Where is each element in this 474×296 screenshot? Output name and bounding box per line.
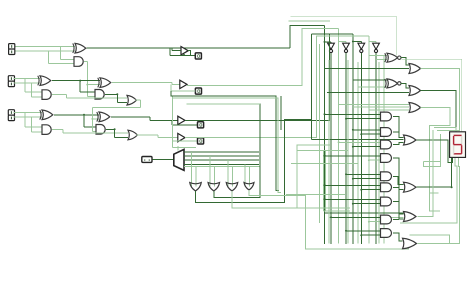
- junction S2 column: [352, 41, 354, 43]
- junction carry0: [86, 84, 88, 86]
- junction buffer1 foot: [183, 54, 185, 56]
- input pin A2/B2: [8, 110, 14, 116]
- wire AND1R input: [325, 113, 382, 115]
- wire net S1 column down: [338, 29, 340, 244]
- wire AND3b out to OR3: [106, 128, 115, 130]
- wire NOT1 output column: [330, 53, 332, 244]
- decoder DEC1 (2-to-4): [174, 149, 184, 170]
- wire light OR6 input: [329, 217, 403, 219]
- wire AND3R input: [339, 141, 381, 143]
- and AND2R: [381, 128, 392, 137]
- wire carry1 OR2 out to row3: [136, 99, 141, 101]
- junction AND8R input tap: [330, 216, 332, 218]
- input pin A1/B1: [8, 76, 14, 82]
- wire AND4R out: [393, 158, 404, 214]
- wire ORD1 riser down: [310, 34, 312, 140]
- junction XOR3a branch: [83, 114, 85, 116]
- or OR2 (carry1): [127, 95, 137, 105]
- wire S1 stub to NOT2: [339, 41, 346, 43]
- wire segB OR2 out: [421, 91, 456, 132]
- wire tap g4b: [248, 167, 250, 187]
- and AND5R: [381, 172, 392, 181]
- wire net S3 buffer4 to NOT4 column: [185, 36, 369, 138]
- wire S0 stub to NOT1: [325, 41, 332, 43]
- wire XOR1 output S0 long net: [87, 47, 291, 49]
- wire B2 to XOR3a: [14, 116, 43, 118]
- wire net S1 buffer2 to NOT2 column: [187, 29, 339, 86]
- wire tap g3b: [232, 167, 234, 187]
- wire B0 branch to AND1: [47, 51, 49, 64]
- wire segD OR4 out: [417, 140, 453, 163]
- wire OR1 input long: [325, 67, 410, 69]
- wire XNOR2 input a: [353, 79, 387, 81]
- wire AND9R out: [393, 233, 403, 241]
- wire AND8R out: [393, 219, 399, 221]
- and AND8R: [381, 215, 392, 224]
- wire segC riser 2: [430, 193, 440, 211]
- and AND9R: [381, 229, 392, 238]
- wire select long branch: [172, 98, 281, 193]
- wire AND2R input: [353, 129, 381, 131]
- wire AND1R input: [346, 118, 381, 120]
- or OR2 (segment b): [409, 86, 421, 96]
- and AND3a: [42, 125, 51, 135]
- and AND2a: [42, 90, 51, 100]
- wire buffer1 out stub: [188, 51, 190, 56]
- not NOT4: [373, 43, 380, 49]
- xor XOR2b (sum S1): [100, 78, 111, 88]
- xnor XNOR1: [387, 53, 398, 62]
- wire ORD1 staircase top: [311, 33, 353, 35]
- junction S0 column: [324, 41, 326, 43]
- wire AND3a out to OR3: [52, 129, 63, 131]
- junction carry1: [91, 118, 93, 120]
- junction AND7R input tap: [324, 198, 326, 200]
- wire A2 to XOR3a: [14, 112, 43, 114]
- wire OR2 input long: [327, 92, 409, 94]
- or OR1 (segment a): [409, 64, 421, 74]
- xor XOR1 (half adder sum S0): [75, 43, 86, 53]
- wire S0 tap to buffer input: [171, 48, 173, 51]
- wire NOT2 output column: [345, 53, 347, 244]
- wire XNOR1 input b: [376, 59, 387, 61]
- and AND4R: [381, 154, 392, 163]
- wire AND8R input: [331, 216, 381, 218]
- wire A1 branch to AND2a: [24, 79, 26, 93]
- wire AND3R out: [393, 143, 404, 145]
- wire light column mid: [328, 60, 330, 244]
- or OR6 (segment f): [404, 212, 417, 222]
- junction AND9R input tap: [345, 230, 347, 232]
- wire display left riser: [439, 134, 441, 162]
- wire S2 stub to NOT3: [353, 41, 361, 43]
- wire S2 tap to pin O3: [171, 120, 173, 125]
- wire light column pair b: [325, 150, 327, 211]
- wire ORD4 output bus: [249, 190, 408, 249]
- wire decoder out D1: [184, 155, 259, 157]
- wire segF lower: [400, 158, 457, 223]
- junction AND2R input tap: [360, 133, 362, 135]
- buffer BUF1 (S0): [181, 47, 188, 55]
- wire ORD1 output bus: [196, 120, 312, 203]
- wire riser 281 upper: [280, 96, 282, 130]
- wire S1 long branch: [171, 91, 279, 190]
- wire OR3 output S3 to buffer: [137, 134, 159, 136]
- or OR5 (segment e): [404, 182, 417, 192]
- junction AND1R input tap: [324, 113, 326, 115]
- buffer BUF2 (S1): [180, 80, 187, 88]
- junction AND3b out: [114, 128, 116, 130]
- wire light bottom link: [323, 210, 350, 212]
- wire select loop vertical: [171, 96, 173, 148]
- or ORD1 (down): [190, 183, 202, 192]
- junction AND2R input tap: [352, 129, 354, 131]
- wire decoder out D3: [184, 163, 259, 165]
- wire light feed f3: [286, 194, 345, 196]
- wire OR3 input a: [339, 104, 409, 106]
- wire B1 to XOR2a: [14, 82, 41, 84]
- output pin O1: [195, 53, 201, 59]
- wire tap g2b: [213, 167, 215, 187]
- wire carry0 to AND2b: [87, 96, 95, 98]
- wire light feed f4: [297, 207, 350, 209]
- wire S3 tap to pin O4: [172, 138, 174, 142]
- wire AND6R out: [393, 187, 404, 189]
- wire S1 tap to pin O2: [170, 84, 172, 91]
- wire segA OR1 out: [421, 69, 460, 131]
- or OR3 (segment c): [409, 103, 421, 113]
- wire tap g1a: [191, 152, 193, 186]
- wire carry1 to AND3b: [92, 130, 96, 132]
- xnor XNOR2: [387, 79, 398, 88]
- wire XNOR2 input b: [358, 86, 387, 88]
- junction AND4R input tap: [368, 159, 370, 161]
- wire AND2a out to OR2: [52, 94, 67, 96]
- wire B1 branch to AND2a: [31, 83, 33, 97]
- wire segF OR6 out: [418, 130, 434, 217]
- wire net S0 column down: [324, 26, 326, 244]
- wire enable line: [184, 166, 261, 168]
- wire AND2R out: [393, 132, 399, 137]
- output pin O3: [198, 122, 204, 128]
- not NOT1: [328, 43, 335, 49]
- wire decoder top stub: [177, 146, 179, 151]
- junction AND6R input tap: [324, 184, 326, 186]
- junction AND7R input tap: [352, 203, 354, 205]
- and AND2b: [95, 90, 104, 100]
- or OR4 (segment d): [404, 135, 417, 145]
- wire net S3 column down: [368, 36, 370, 244]
- junction AND5R input tap: [352, 178, 354, 180]
- or ORD3 (down): [226, 183, 238, 192]
- xor XOR2a: [40, 76, 51, 86]
- input pin SEL (2-bit): [142, 157, 152, 163]
- and AND3R: [381, 140, 392, 149]
- junction segE: [451, 186, 453, 188]
- junction AND4R input tap: [324, 155, 326, 157]
- wire AND5R input: [353, 178, 381, 180]
- and AND3b: [96, 125, 105, 135]
- wire A1 to XOR2a: [14, 78, 41, 80]
- junction XOR2a out branch: [79, 80, 81, 82]
- wire segC OR3 out: [421, 108, 450, 194]
- wire XNOR1 input a: [369, 55, 387, 57]
- wire NOT3 output column: [360, 53, 362, 244]
- wire decoder out D0: [184, 151, 259, 153]
- wire A0 branch to AND1: [60, 47, 62, 60]
- wire tap g2a: [209, 156, 211, 186]
- wire XOR2b output S1 to buffer: [112, 82, 172, 84]
- wire light column pair a: [322, 150, 324, 211]
- 7-segment display U7 showing 5: [450, 132, 466, 158]
- wire AND9R input: [346, 230, 381, 232]
- wire S1 pin link: [191, 90, 196, 92]
- and AND6R: [381, 183, 392, 192]
- wire ORD1 net to OR4: [311, 138, 403, 140]
- wire light feed f2: [291, 163, 358, 165]
- or ORD4 (down): [244, 183, 254, 191]
- wire AND4R input: [369, 159, 381, 161]
- and AND7R: [381, 197, 392, 206]
- wire XOR3a out to XOR3b: [54, 114, 99, 116]
- wire net S0 buffer1 to NOT1 column: [290, 26, 325, 49]
- junction AND8R input tap: [368, 221, 370, 223]
- wire light feed f1: [297, 150, 348, 152]
- or OR3 (carry2 = S3): [128, 130, 138, 140]
- buffer BUF3 (S2): [178, 116, 185, 124]
- junction AND9R input tap: [360, 234, 362, 236]
- junction AND6R input tap: [360, 189, 362, 191]
- input pin A0/B0: [9, 44, 15, 50]
- wire AND2b out to OR2: [105, 93, 117, 95]
- junction AND3R input tap: [352, 146, 354, 148]
- wire AND7R input: [353, 203, 381, 205]
- wire AND4R input: [325, 155, 382, 157]
- and AND1 (half adder carry): [74, 57, 83, 67]
- wire XOR2a branch to AND2b: [79, 81, 81, 93]
- wire tap g1b: [195, 167, 197, 187]
- wire XNOR1 out to OR1: [401, 58, 409, 65]
- xor XOR3a: [42, 110, 53, 120]
- wire OR3 input c: [369, 109, 409, 111]
- wire ORD2 output bus: [214, 104, 260, 198]
- wire OR3 input b: [353, 106, 409, 108]
- junction AND3R input tap: [338, 141, 340, 143]
- wire NOT4 output column: [375, 53, 377, 244]
- wire XOR3b output S2 to buffer: [111, 116, 150, 118]
- wire A0 to XOR1 input: [14, 46, 76, 48]
- wire AND7R out: [393, 202, 404, 220]
- wire net S2 column down: [352, 34, 354, 244]
- wire XNOR1 aux out to display top: [401, 59, 461, 131]
- wire long OR6 input: [325, 212, 404, 214]
- wire AND8R input: [369, 221, 381, 223]
- wire segG OR7 out: [418, 158, 460, 244]
- wire select loop horizontal: [172, 147, 196, 149]
- output pin O4: [198, 138, 204, 144]
- wire faint top net 1: [291, 16, 397, 55]
- buffer BUF4 (S3): [178, 133, 185, 141]
- wire auxiliary column: [319, 44, 321, 223]
- wire AND1 carry0 out: [84, 61, 87, 63]
- wire tap g3a: [227, 160, 229, 186]
- wire decoder out D2: [184, 159, 259, 161]
- wire light column c2: [347, 60, 349, 244]
- wire AND1R out: [393, 117, 404, 138]
- wire AND7R input: [325, 198, 382, 200]
- wire carry0 to XOR2b: [87, 84, 100, 86]
- wire XNOR2 out to OR2: [401, 83, 409, 88]
- wire B0 to XOR1 input: [14, 50, 76, 52]
- wire faint top net 2: [288, 20, 330, 22]
- wire ORD3 output bus: [232, 145, 330, 208]
- wire auxiliary column right: [383, 55, 385, 244]
- wire light column c4: [378, 62, 380, 244]
- wire net S2 buffer3 to NOT3 column: [185, 34, 353, 121]
- or OR7 (segment g): [403, 238, 417, 249]
- or ORD2 (down): [208, 183, 220, 192]
- wire AND9R input: [361, 234, 381, 236]
- wire AND5R input: [346, 173, 381, 175]
- wire carry1 to XOR3b: [91, 108, 93, 132]
- junction AND1R input tap: [345, 118, 347, 120]
- wire AND6R input: [325, 184, 382, 186]
- wire A2 branch to AND3a: [24, 113, 26, 128]
- output pin O2: [195, 88, 201, 94]
- wire segE OR5 out: [417, 158, 452, 187]
- junction AND2b out: [116, 93, 118, 95]
- wire AND5R out: [393, 176, 404, 184]
- wire display top feed c: [434, 127, 456, 131]
- wire AND2R input: [361, 133, 381, 135]
- xor XOR3b (sum S2): [99, 112, 110, 122]
- wire SEL to decoder: [153, 158, 174, 160]
- wire S3 stub to NOT4: [369, 41, 376, 43]
- not NOT3: [358, 43, 365, 49]
- wire light column c3: [357, 62, 359, 244]
- junction AND5R input tap: [345, 173, 347, 175]
- wire AND3R input: [353, 146, 381, 148]
- not NOT2: [343, 43, 350, 49]
- wire B2 branch to AND3a: [31, 117, 33, 132]
- wire tap g4a: [244, 164, 246, 186]
- wire OR7 loop: [410, 235, 450, 244]
- wire XOR3a branch to AND3b: [83, 115, 85, 127]
- wire S0 tap to pin O1: [169, 48, 171, 55]
- wire AND6R input: [361, 189, 381, 191]
- wire display lower loop: [424, 162, 441, 167]
- wire XOR2a out to XOR2b: [52, 80, 100, 82]
- wire aux light riser: [187, 103, 261, 105]
- and AND1R: [381, 112, 392, 121]
